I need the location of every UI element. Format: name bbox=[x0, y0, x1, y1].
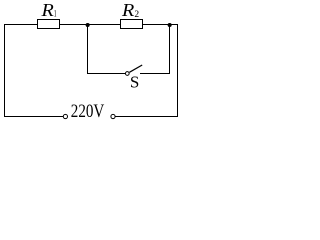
svg-text:R: R bbox=[40, 0, 53, 20]
wire: bottom-left horizontal to left supply terminal bbox=[4, 116, 64, 118]
switch S pivot contact circle bbox=[125, 72, 129, 76]
wire: R1 to R2 bbox=[60, 24, 121, 26]
terminal: left supply terminal circle bbox=[63, 114, 67, 118]
wire: switch branch vertical rise to node B bbox=[169, 25, 171, 74]
node B junction dot (R2 right / switch return) bbox=[168, 23, 172, 27]
svg-text:R: R bbox=[121, 0, 134, 20]
svg-text:S: S bbox=[130, 73, 139, 92]
wire: switch right side horizontal bbox=[140, 73, 170, 75]
svg-text:220V: 220V bbox=[71, 102, 105, 122]
wire: bottom-right horizontal from right terminal to right rail bbox=[115, 116, 178, 118]
resistor R2 bbox=[121, 20, 143, 29]
node A junction dot (R1/R2/switch branch) bbox=[86, 23, 90, 27]
svg-text:1: 1 bbox=[54, 10, 57, 20]
switch S lever arm bbox=[129, 65, 142, 72]
wire: switch branch vertical drop from node A bbox=[87, 25, 89, 75]
resistor R1 bbox=[38, 20, 60, 29]
wire: switch branch horizontal to switch pivot bbox=[87, 73, 125, 75]
wire: R2 to top-right corner bbox=[143, 24, 179, 26]
wire: right rail vertical bbox=[177, 24, 179, 117]
wire: left rail vertical bbox=[4, 24, 6, 117]
terminal: right supply terminal circle bbox=[111, 114, 115, 118]
wire: top-left horizontal from left rail to R1 bbox=[4, 24, 38, 26]
svg-text:2: 2 bbox=[134, 10, 139, 20]
